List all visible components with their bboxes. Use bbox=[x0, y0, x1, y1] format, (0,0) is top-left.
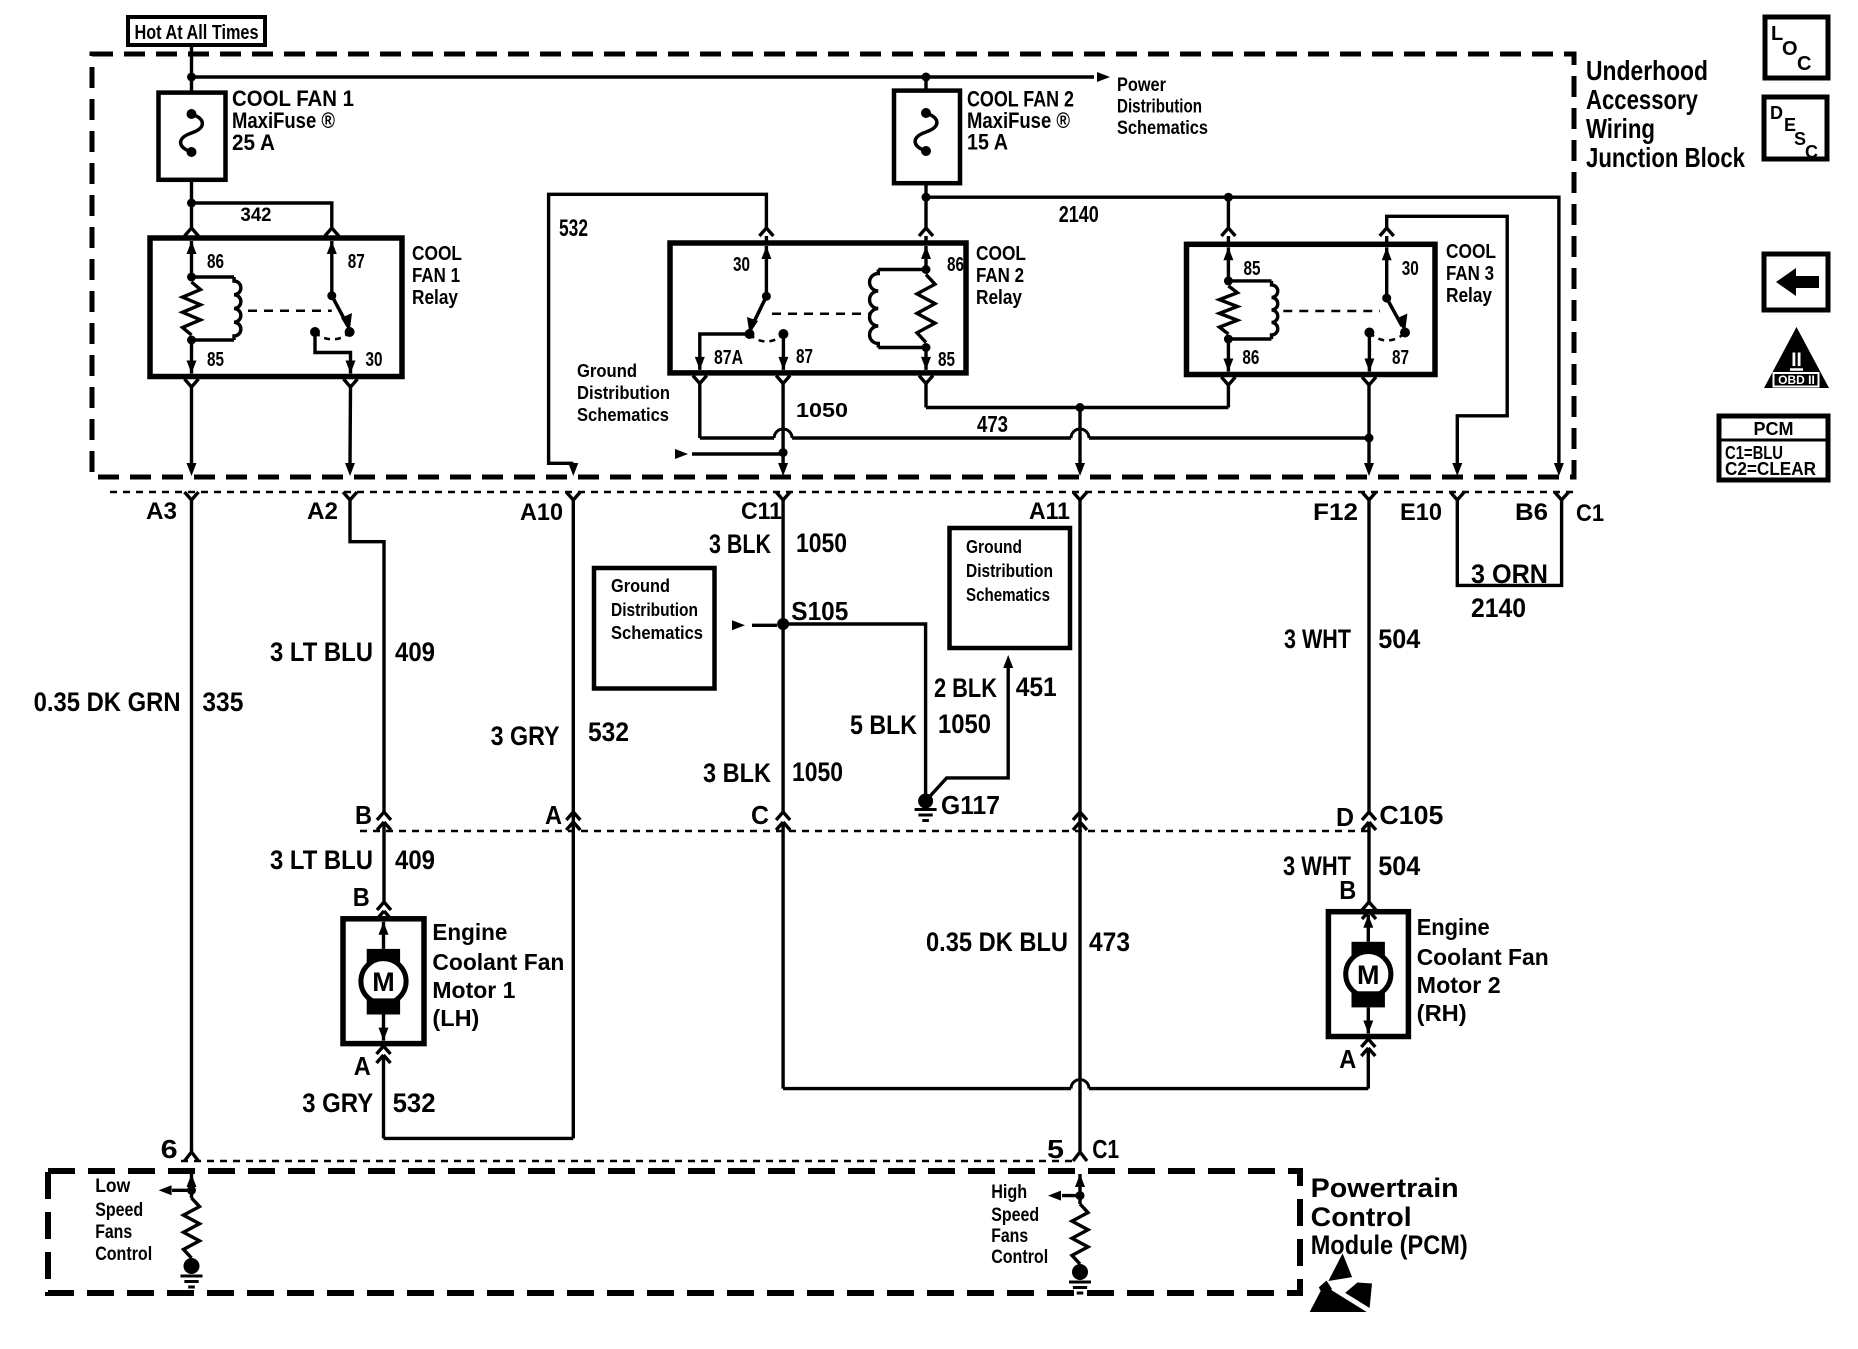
connector C105 B bbox=[377, 812, 391, 902]
svg-text:Motor 2: Motor 2 bbox=[1417, 972, 1501, 998]
arrow: wire 2140 exits block at E10 bbox=[1452, 463, 1462, 476]
wire 409: A2 to C105 B bbox=[350, 500, 384, 812]
wire 473: tap down to A11 bbox=[1075, 408, 1085, 477]
svg-text:A2: A2 bbox=[307, 498, 338, 525]
label: 2 BLK 451 bbox=[934, 672, 1057, 703]
svg-text:3 GRY: 3 GRY bbox=[491, 721, 560, 751]
icon: DESC reference box bbox=[1764, 97, 1827, 162]
label: 3 WHT 504 (upper) bbox=[1284, 624, 1420, 654]
svg-text:2140: 2140 bbox=[1059, 201, 1099, 227]
label: 3 BLK 1050 (mid) bbox=[703, 757, 843, 788]
label: wire 2140 (PCM side) bbox=[1471, 593, 1526, 623]
label: Low Speed Fans Control bbox=[95, 1176, 152, 1265]
connector row: PCM dotted line bbox=[181, 1160, 1072, 1163]
svg-text:S105: S105 bbox=[791, 596, 848, 626]
svg-text:O: O bbox=[1782, 38, 1798, 60]
svg-text:COOL: COOL bbox=[412, 243, 462, 265]
svg-text:Coolant Fan: Coolant Fan bbox=[1417, 944, 1549, 970]
svg-text:FAN 2: FAN 2 bbox=[976, 265, 1024, 287]
svg-text:335: 335 bbox=[202, 687, 243, 717]
node: power bus junction at fuse 2 bbox=[922, 73, 931, 82]
label: High Speed Fans Control bbox=[991, 1182, 1048, 1268]
label: wire 1050 (junction block) bbox=[796, 400, 848, 422]
node: ground pointer taps wire 1050 bbox=[779, 448, 788, 457]
svg-text:1050: 1050 bbox=[792, 757, 843, 787]
svg-text:30: 30 bbox=[733, 254, 750, 276]
connector C105 A bbox=[566, 812, 580, 830]
wire 451: G117 to Ground Distribution Schematics bbox=[926, 655, 1014, 801]
label: G117 bbox=[941, 790, 1000, 820]
label: wire 2140 (junction block) bbox=[1059, 201, 1099, 227]
coil: relay K2 winding bbox=[870, 270, 926, 348]
motor M2: Engine Coolant Fan Motor 2 box bbox=[1328, 912, 1408, 1037]
arrow: wire 532 exits block at A10 bbox=[568, 463, 578, 476]
svg-text:86: 86 bbox=[1242, 347, 1259, 369]
svg-text:25 A: 25 A bbox=[232, 130, 275, 155]
connector row: junction block bottom dotted line bbox=[110, 491, 1574, 494]
module: Powertrain Control Module dashed box bbox=[48, 1171, 1300, 1293]
label: pin A motor 2 bbox=[1339, 1044, 1356, 1074]
label: S105 bbox=[791, 596, 848, 626]
resistor: relay K2 internal bbox=[917, 275, 935, 343]
connector: relay K1 pin 30 out bbox=[344, 379, 358, 463]
svg-text:Relay: Relay bbox=[976, 287, 1023, 309]
label: COOL FAN 2 MaxiFuse 15 A bbox=[967, 87, 1074, 155]
label: 3 LT BLU 409 (upper) bbox=[270, 637, 435, 667]
label: connector C1 (junction block) bbox=[1576, 500, 1604, 527]
label: 3 GRY 532 (lower) bbox=[302, 1088, 435, 1118]
svg-text:87: 87 bbox=[348, 251, 365, 273]
connector C11 bbox=[741, 492, 790, 525]
wire 504: relay2 87A across to F12 riser bbox=[700, 429, 1369, 438]
connector: relay 1 pin 86 inline bbox=[185, 228, 199, 238]
svg-text:Distribution: Distribution bbox=[1117, 97, 1202, 118]
label: 0.35 DK BLU 473 bbox=[926, 927, 1130, 957]
relay K1 pin 87 lead bbox=[327, 241, 337, 296]
pin label: K1 85 bbox=[207, 349, 224, 371]
svg-text:Ground: Ground bbox=[966, 537, 1022, 557]
svg-text:E10: E10 bbox=[1400, 499, 1442, 526]
label: pin B motor 1 bbox=[353, 882, 370, 912]
svg-text:30: 30 bbox=[366, 349, 383, 371]
relay K3 pin 85 lead bbox=[1223, 247, 1233, 281]
pin label: K1 86 bbox=[207, 251, 224, 273]
wire: relay K2 switch to pin 87A bbox=[695, 334, 750, 370]
label: pin 6 (PCM) bbox=[161, 1134, 178, 1164]
svg-text:Powertrain: Powertrain bbox=[1311, 1173, 1459, 1203]
svg-text:(LH): (LH) bbox=[432, 1005, 479, 1031]
svg-text:Fans: Fans bbox=[991, 1226, 1028, 1247]
switch: relay K3 armature bbox=[1364, 294, 1410, 341]
svg-text:85: 85 bbox=[1244, 258, 1261, 280]
icon: LOC reference box bbox=[1765, 17, 1828, 78]
relay K1 pin 86 lead bbox=[187, 241, 197, 277]
connector: relay 3 pin 30 inline bbox=[1380, 228, 1394, 244]
svg-text:Hot At All Times: Hot At All Times bbox=[135, 22, 259, 44]
title: Underhood Accessory Wiring Junction Block bbox=[1586, 55, 1745, 173]
svg-text:85: 85 bbox=[207, 349, 224, 371]
svg-text:C: C bbox=[751, 800, 769, 830]
svg-text:Schematics: Schematics bbox=[611, 623, 703, 643]
svg-text:D: D bbox=[1336, 802, 1354, 832]
svg-text:1050: 1050 bbox=[938, 709, 991, 739]
svg-text:C: C bbox=[1797, 53, 1811, 75]
svg-text:3 LT BLU: 3 LT BLU bbox=[270, 845, 373, 875]
wire: S105 to ground G117 bbox=[783, 624, 926, 795]
icon: back arrow box bbox=[1764, 254, 1828, 310]
label: pin D (C105) bbox=[1336, 802, 1354, 832]
svg-text:A: A bbox=[1339, 1044, 1356, 1074]
label: pin B motor 2 bbox=[1339, 875, 1356, 905]
relay K2 pin 86 lead bbox=[921, 246, 931, 270]
svg-text:0.35 DK BLU: 0.35 DK BLU bbox=[926, 927, 1068, 957]
connector: relay K3 pin 86 out bbox=[1221, 377, 1235, 408]
svg-text:15 A: 15 A bbox=[967, 130, 1008, 155]
svg-text:Control: Control bbox=[95, 1244, 152, 1265]
svg-text:30: 30 bbox=[1402, 258, 1419, 280]
wire 1050: C105 C to motor 2 pin A bbox=[783, 1080, 1368, 1089]
label: wire 473 (junction block) bbox=[977, 411, 1008, 437]
svg-text:Distribution: Distribution bbox=[577, 383, 670, 403]
wire: 2140 branch down to relay 3 pin 85 bbox=[1227, 197, 1230, 228]
svg-text:Module (PCM): Module (PCM) bbox=[1311, 1230, 1468, 1260]
node: relay K3 coil bottom bbox=[1224, 335, 1233, 344]
connector: motor 2 pin A bbox=[1361, 1039, 1375, 1089]
svg-text:87: 87 bbox=[1392, 347, 1409, 369]
wire: battery feed from Hot At All Times into junction block bbox=[190, 45, 193, 93]
svg-text:Low: Low bbox=[95, 1176, 130, 1197]
svg-text:C2=CLEAR: C2=CLEAR bbox=[1725, 459, 1816, 479]
connector A2 bbox=[307, 492, 357, 525]
svg-text:COOL: COOL bbox=[1446, 241, 1496, 263]
svg-text:B: B bbox=[1339, 875, 1356, 905]
svg-text:(RH): (RH) bbox=[1417, 1000, 1467, 1026]
pin label: K2 85 bbox=[938, 349, 955, 371]
label: Ground Distribution Schematics (junction block) bbox=[577, 361, 670, 425]
svg-text:A: A bbox=[354, 1051, 371, 1081]
node: relay K1 coil top bbox=[187, 273, 196, 282]
svg-text:Engine: Engine bbox=[432, 919, 507, 945]
label: COOL FAN 2 Relay bbox=[976, 243, 1026, 309]
svg-text:Distribution: Distribution bbox=[966, 561, 1053, 581]
label: wire 342 bbox=[241, 205, 272, 226]
svg-text:Motor 1: Motor 1 bbox=[432, 977, 515, 1003]
svg-text:FAN 1: FAN 1 bbox=[412, 265, 460, 287]
svg-text:A3: A3 bbox=[146, 498, 177, 525]
relay K2: COOL FAN 2 Relay box bbox=[670, 243, 966, 373]
pin label: K1 30 bbox=[366, 349, 383, 371]
svg-text:M: M bbox=[372, 967, 395, 997]
svg-text:C1: C1 bbox=[1092, 1134, 1119, 1164]
node: 2140 branch to relay 3 bbox=[1224, 193, 1233, 202]
label: 3 WHT 504 (lower) bbox=[1283, 851, 1420, 881]
relay K1 pin 85 lead bbox=[187, 340, 197, 374]
connector A3 bbox=[146, 492, 199, 525]
svg-text:Control: Control bbox=[1311, 1202, 1412, 1232]
svg-text:A: A bbox=[545, 800, 562, 830]
arrow: pointer from Ground Distribution box to S105 bbox=[732, 620, 777, 630]
label: Engine Coolant Fan Motor 2 (RH) bbox=[1417, 914, 1549, 1026]
connector: relay 2 pin 86 inline bbox=[919, 228, 933, 243]
svg-text:Speed: Speed bbox=[991, 1205, 1039, 1226]
node: wire 504 joins F12 riser bbox=[1365, 434, 1374, 443]
wire 532: A10 riser to relay 2 pin 30 bbox=[549, 194, 767, 463]
svg-text:Speed: Speed bbox=[95, 1200, 143, 1221]
ground G117 bbox=[915, 794, 937, 821]
svg-text:B: B bbox=[353, 882, 370, 912]
connector: relay 2 pin 30 inline bbox=[759, 228, 773, 243]
connector: relay K2 pin 87 out bbox=[776, 376, 790, 464]
svg-text:3 ORN: 3 ORN bbox=[1471, 559, 1548, 589]
svg-text:Schematics: Schematics bbox=[966, 585, 1050, 605]
coil: relay K3 winding bbox=[1228, 281, 1277, 339]
svg-text:A11: A11 bbox=[1029, 498, 1070, 525]
motor M1 armature bbox=[361, 922, 406, 1041]
fuse F1: COOL FAN 1 MaxiFuse 25 A bbox=[159, 93, 226, 180]
resistor: relay K3 internal bbox=[1219, 286, 1237, 334]
connector: relay K2 pin 85 out bbox=[919, 376, 933, 408]
node: power bus junction at fuse 1 bbox=[187, 73, 196, 82]
label: pin 5 C1 (PCM) bbox=[1047, 1134, 1119, 1164]
svg-text:409: 409 bbox=[395, 845, 435, 875]
connector C105 C bbox=[776, 812, 790, 1089]
node: relay K1 coil bottom bbox=[187, 336, 196, 345]
node: relay K2 coil top bbox=[922, 265, 931, 274]
wire: fuse 1 output bbox=[190, 180, 193, 228]
connector: relay 3 pin 85 inline bbox=[1221, 228, 1235, 244]
svg-text:87: 87 bbox=[796, 346, 813, 368]
svg-text:Relay: Relay bbox=[1446, 285, 1493, 307]
label: pin A motor 1 bbox=[354, 1051, 371, 1081]
svg-text:1050: 1050 bbox=[796, 400, 848, 422]
switch: relay K2 armature bbox=[745, 292, 789, 342]
svg-text:Relay: Relay bbox=[412, 287, 459, 309]
wire 335: A3 to PCM pin 6 bbox=[190, 500, 193, 1150]
svg-text:3 LT BLU: 3 LT BLU bbox=[270, 637, 373, 667]
node: junction fuse1 output / net 342 bbox=[187, 199, 196, 208]
svg-text:B6: B6 bbox=[1515, 499, 1548, 526]
svg-text:5 BLK: 5 BLK bbox=[850, 710, 917, 740]
svg-text:451: 451 bbox=[1016, 672, 1057, 702]
svg-text:409: 409 bbox=[395, 637, 435, 667]
svg-text:F12: F12 bbox=[1313, 499, 1358, 526]
svg-text:3 GRY: 3 GRY bbox=[302, 1088, 373, 1118]
svg-text:85: 85 bbox=[938, 349, 955, 371]
svg-text:High: High bbox=[991, 1182, 1027, 1203]
svg-text:Engine: Engine bbox=[1417, 914, 1490, 940]
svg-text:OBD II: OBD II bbox=[1778, 373, 1815, 387]
svg-text:Distribution: Distribution bbox=[611, 600, 698, 620]
arrow: wire 504 exits block at F12 bbox=[1364, 463, 1374, 476]
label: Engine Coolant Fan Motor 1 (LH) bbox=[432, 919, 564, 1031]
connector: motor 1 pin B bbox=[377, 902, 391, 919]
svg-text:B: B bbox=[355, 800, 372, 830]
svg-text:A10: A10 bbox=[520, 499, 563, 526]
wire: motor 1 return to 532 riser bbox=[384, 1137, 574, 1140]
pin label: K2 87 bbox=[796, 346, 813, 368]
circuit: PCM high speed fans control bbox=[1048, 1174, 1091, 1293]
connector: relay K2 pin 87A out bbox=[693, 376, 707, 439]
fuse F2: COOL FAN 2 MaxiFuse 15 A bbox=[894, 77, 960, 183]
svg-text:Control: Control bbox=[991, 1247, 1048, 1268]
connector: PCM pin 6 bbox=[185, 1150, 199, 1161]
svg-text:C11: C11 bbox=[741, 498, 782, 525]
svg-text:COOL: COOL bbox=[976, 243, 1026, 265]
svg-text:C1: C1 bbox=[1576, 500, 1604, 527]
arrow: wire 2140 exits block at B6 bbox=[1554, 463, 1564, 476]
dashed link: relay K2 actuation bbox=[772, 312, 869, 315]
svg-text:86: 86 bbox=[947, 254, 964, 276]
svg-text:II: II bbox=[1791, 350, 1802, 371]
connector E10 bbox=[1400, 492, 1464, 526]
svg-text:Junction Block: Junction Block bbox=[1586, 142, 1745, 173]
relay K3 pin 86 lead bbox=[1223, 339, 1233, 372]
label: 0.35 DK GRN 335 bbox=[34, 687, 244, 717]
svg-text:532: 532 bbox=[588, 717, 629, 747]
svg-text:473: 473 bbox=[1089, 927, 1130, 957]
svg-text:G117: G117 bbox=[941, 790, 1000, 820]
label: wire 532 (junction block) bbox=[559, 215, 588, 242]
svg-text:86: 86 bbox=[207, 251, 224, 273]
connector: relay K1 pin 85 out bbox=[185, 379, 199, 463]
relay K2 pin 30 lead bbox=[761, 246, 771, 296]
label: pin A (C105) bbox=[545, 800, 562, 830]
dashed link: relay K1 actuation bbox=[248, 310, 332, 313]
node S105: splice on wire 1050 bbox=[777, 618, 789, 630]
svg-text:0.35 DK GRN: 0.35 DK GRN bbox=[34, 687, 181, 717]
svg-text:504: 504 bbox=[1378, 851, 1420, 881]
wire: relay K2 contact to pin 87 bbox=[778, 334, 788, 370]
svg-text:M: M bbox=[1357, 960, 1380, 990]
pin label: K3 86 bbox=[1242, 347, 1259, 369]
pin label: K3 87 bbox=[1392, 347, 1409, 369]
node: relay K2 coil bottom bbox=[922, 343, 931, 352]
wire 473: A11 to PCM pin 5 bbox=[1078, 500, 1081, 1150]
svg-text:Power: Power bbox=[1117, 75, 1167, 96]
pin label: K2 30 bbox=[733, 254, 750, 276]
dashed link: relay K3 actuation bbox=[1283, 310, 1380, 313]
connector B6 bbox=[1515, 492, 1569, 526]
svg-text:1050: 1050 bbox=[796, 528, 847, 558]
connector A11 bbox=[1029, 492, 1087, 525]
svg-text:PCM: PCM bbox=[1754, 419, 1794, 439]
wire 2140: bus from fuse 2 to B6 drop bbox=[926, 197, 1559, 463]
svg-text:2 BLK: 2 BLK bbox=[934, 673, 997, 703]
circuit: PCM low speed fans control bbox=[159, 1174, 203, 1287]
switch: relay K1 armature bbox=[310, 291, 355, 339]
label: C105 bbox=[1379, 800, 1443, 830]
wire 2140: E10 to B6 loop (3 ORN) bbox=[1457, 500, 1561, 585]
svg-text:342: 342 bbox=[241, 205, 272, 226]
wire: fuse 2 output bbox=[924, 183, 927, 228]
label: COOL FAN 1 MaxiFuse 25 A bbox=[232, 86, 354, 155]
relay K1: COOL FAN 1 Relay box bbox=[150, 238, 402, 377]
label box: Hot At All Times bbox=[128, 17, 265, 45]
arrow: wire 335 exits block at A3 bbox=[187, 463, 197, 476]
label: COOL FAN 3 Relay bbox=[1446, 241, 1496, 307]
connector A10 bbox=[520, 492, 580, 526]
box: Ground Distribution Schematics (right) bbox=[950, 528, 1071, 648]
connector F12 bbox=[1313, 492, 1376, 526]
svg-text:3 WHT: 3 WHT bbox=[1284, 624, 1351, 654]
wire: relay 3 pin 30 feeder from E10 bbox=[1387, 216, 1508, 463]
svg-text:Schematics: Schematics bbox=[577, 405, 669, 425]
label: pin B (C105) bbox=[355, 800, 372, 830]
icon: ESD sensitive device symbol bbox=[1310, 1253, 1372, 1312]
wire: relay K1 switch to pin 30 bbox=[315, 332, 356, 374]
coil: relay K1 winding bbox=[192, 277, 241, 340]
arrow: wire 409 exits block at A2 bbox=[345, 463, 355, 476]
svg-text:C105: C105 bbox=[1379, 800, 1443, 830]
box: Ground Distribution Schematics (left) bbox=[594, 568, 715, 689]
svg-text:Schematics: Schematics bbox=[1117, 118, 1208, 139]
arrow: ground distribution pointer bbox=[675, 449, 783, 459]
label: 5 BLK 1050 bbox=[850, 709, 991, 740]
label: pin C (C105) bbox=[751, 800, 769, 830]
node: fuse 2 output junction bbox=[922, 193, 931, 202]
connector C105 (473 pass-through) bbox=[1073, 812, 1087, 830]
wire 532: A10 riser to motor return bbox=[572, 500, 575, 1138]
relay K3 pin 30 lead bbox=[1382, 247, 1392, 298]
svg-text:532: 532 bbox=[393, 1088, 436, 1118]
connector row: C105 dotted line bbox=[360, 830, 1369, 833]
motor M2 armature bbox=[1346, 915, 1391, 1034]
label: 3 GRY 532 (mid) bbox=[491, 717, 629, 751]
connector: PCM pin 5 bbox=[1073, 1150, 1087, 1161]
legend: PCM connector colors box bbox=[1719, 416, 1828, 480]
label: 3 LT BLU 409 (lower) bbox=[270, 845, 435, 875]
relay K3: COOL FAN 3 Relay box bbox=[1187, 244, 1436, 374]
connector: motor 1 pin A bbox=[377, 1046, 391, 1138]
svg-text:6: 6 bbox=[161, 1134, 178, 1164]
node: wire 473 tap to A11 bbox=[1076, 403, 1085, 412]
svg-text:Wiring: Wiring bbox=[1586, 113, 1655, 144]
relay K2 pin 85 lead bbox=[921, 348, 931, 370]
pin label: K1 87 bbox=[348, 251, 365, 273]
svg-text:5: 5 bbox=[1047, 1134, 1064, 1164]
connector C105 D bbox=[1362, 812, 1376, 902]
svg-text:504: 504 bbox=[1378, 624, 1420, 654]
pin label: K2 86 bbox=[947, 254, 964, 276]
svg-text:532: 532 bbox=[559, 215, 588, 242]
label: Power Distribution Schematics bbox=[1117, 75, 1208, 139]
connector: relay 1 pin 87 inline bbox=[325, 228, 339, 238]
label: Powertrain Control Module (PCM) bbox=[1311, 1173, 1468, 1260]
svg-text:3 BLK: 3 BLK bbox=[709, 529, 771, 559]
arrow: to Power Distribution Schematics bbox=[1097, 72, 1110, 82]
connector: relay K3 pin 87 out bbox=[1362, 377, 1376, 463]
svg-text:FAN 3: FAN 3 bbox=[1446, 263, 1494, 285]
svg-text:Ground: Ground bbox=[611, 576, 670, 596]
svg-text:87A: 87A bbox=[714, 347, 743, 369]
icon: OBD II triangle bbox=[1764, 327, 1829, 388]
svg-text:C: C bbox=[1805, 142, 1818, 162]
svg-text:D: D bbox=[1770, 103, 1783, 123]
svg-text:Accessory: Accessory bbox=[1586, 84, 1698, 115]
wire 473: relay2 85 to relay3 86 bbox=[926, 406, 1228, 409]
motor M1: Engine Coolant Fan Motor 1 box bbox=[343, 919, 424, 1044]
svg-text:3 BLK: 3 BLK bbox=[703, 758, 771, 788]
pin label: K3 85 bbox=[1244, 258, 1261, 280]
label: 3 BLK 1050 (upper) bbox=[709, 528, 847, 559]
label: 3 ORN bbox=[1471, 559, 1548, 589]
arrow: wire 1050 exits block at C11 bbox=[778, 463, 788, 476]
svg-text:Coolant Fan: Coolant Fan bbox=[432, 949, 564, 975]
svg-text:Fans: Fans bbox=[95, 1222, 132, 1243]
connector: motor 2 pin B bbox=[1362, 902, 1376, 919]
wire: relay K3 switch to pin 87 bbox=[1364, 333, 1374, 372]
svg-text:Ground: Ground bbox=[577, 361, 637, 381]
